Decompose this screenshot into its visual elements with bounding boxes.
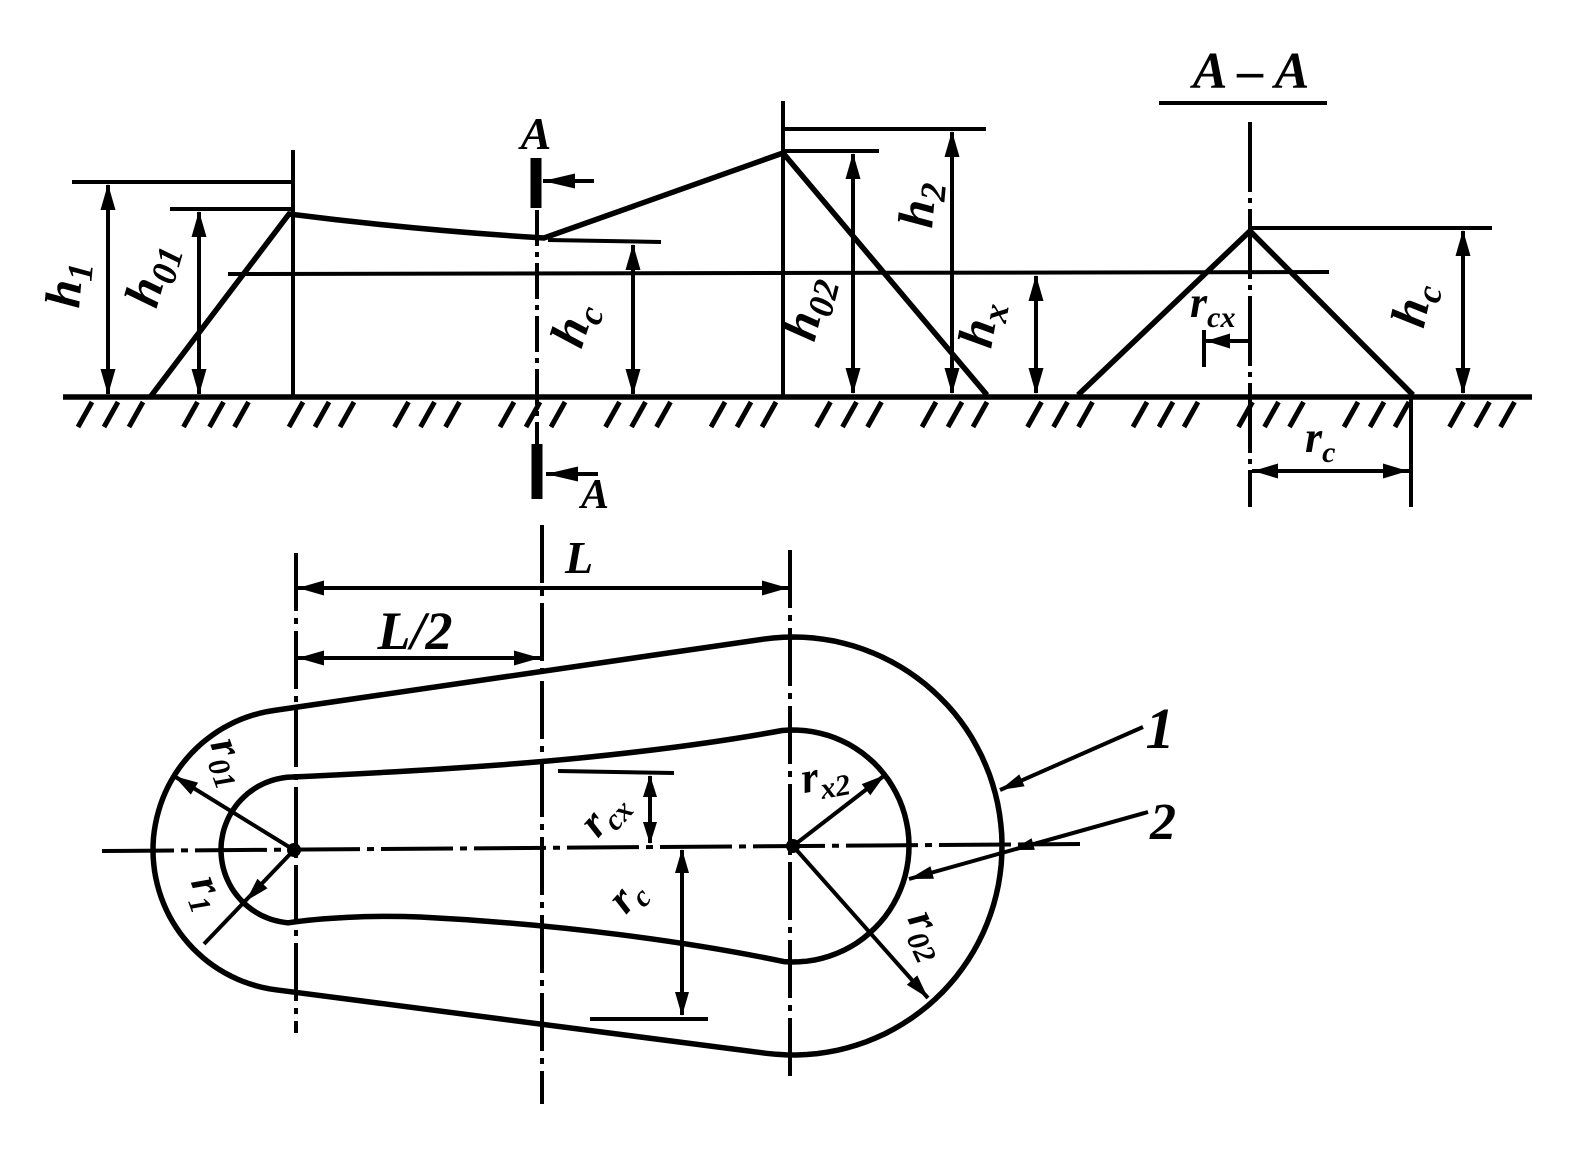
svg-text:rc: rc	[1305, 413, 1335, 469]
h02 top reference line	[783, 149, 879, 153]
label rc section	[1305, 413, 1335, 469]
plan horizontal centerline	[102, 844, 1080, 851]
label r1	[175, 869, 238, 918]
dimension hc arrow	[626, 244, 641, 395]
hc reference line	[548, 240, 661, 242]
right center point	[786, 839, 800, 853]
dimension h1 arrow	[101, 184, 116, 395]
label hc	[538, 294, 611, 355]
label rc plan	[597, 867, 658, 926]
left center point	[287, 843, 301, 857]
label hx	[947, 297, 1017, 353]
plan right axis line	[788, 550, 792, 1083]
label h1	[34, 259, 101, 310]
svg-text:hc: hc	[538, 294, 611, 355]
dimension rc section arrow	[1252, 464, 1409, 479]
section triangle profile	[1078, 231, 1413, 395]
label h01	[113, 236, 191, 315]
label L	[564, 532, 593, 583]
label hc section	[1379, 277, 1450, 333]
h2 top reference line	[784, 127, 986, 131]
label rx2	[797, 747, 853, 809]
dimension rcx arrow	[1206, 334, 1250, 349]
svg-text:A: A	[518, 108, 552, 159]
label h02	[771, 270, 848, 347]
svg-text:r1: r1	[175, 869, 238, 918]
plan middle axis line (section A-A)	[540, 525, 544, 1104]
dimension rc plan arrow	[675, 849, 689, 1016]
svg-text:rc: rc	[597, 867, 658, 926]
svg-text:r02: r02	[893, 902, 963, 968]
svg-text:A: A	[578, 472, 609, 518]
svg-text:2: 2	[1149, 794, 1176, 851]
svg-text:hc: hc	[1379, 277, 1450, 333]
callout 1	[1146, 696, 1175, 761]
label r02	[893, 902, 963, 968]
label r01	[195, 731, 263, 794]
section line A-A (dash-dot)	[535, 210, 539, 444]
dune profile line	[151, 153, 987, 396]
rc extension line right	[1409, 397, 1413, 507]
leader line 1	[1000, 727, 1143, 790]
rc plan reference line	[590, 1017, 708, 1021]
radius r02	[793, 846, 928, 998]
plan left axis line	[294, 553, 298, 1033]
dimension h2 arrow	[945, 131, 960, 394]
dimension hx arrow	[1029, 275, 1044, 394]
h01 top reference line	[170, 207, 292, 211]
dimension L/2 arrow	[298, 651, 540, 666]
svg-text:h2: h2	[887, 179, 954, 230]
section hc reference line	[1252, 226, 1492, 230]
svg-text:h01: h01	[113, 236, 191, 315]
h1 top reference line	[72, 180, 292, 184]
dimension hc section arrow	[1456, 230, 1471, 394]
leader line 2	[909, 812, 1148, 879]
rcx plan reference line	[558, 771, 674, 773]
svg-text:L/2: L/2	[377, 601, 453, 661]
svg-text:hx: hx	[947, 297, 1017, 353]
title A-A	[1190, 43, 1310, 100]
ground line	[63, 394, 1532, 400]
svg-text:rcx: rcx	[1190, 278, 1235, 334]
inner contour 2 (teardrop)	[221, 730, 909, 962]
svg-text:1: 1	[1146, 696, 1175, 761]
svg-text:rx2: rx2	[797, 747, 853, 809]
label A top	[518, 108, 552, 159]
label rcx plan	[569, 779, 640, 850]
label h2	[887, 179, 954, 230]
svg-text:h1: h1	[34, 259, 101, 310]
svg-text:rcx: rcx	[569, 779, 640, 850]
extension line through peak 1	[291, 150, 295, 396]
section axis line	[1248, 122, 1252, 507]
ground hatching	[78, 402, 1515, 427]
section cut mark A bottom	[537, 444, 598, 499]
label rcx	[1190, 278, 1235, 334]
callout 2	[1149, 794, 1176, 851]
dimension h02 arrow	[846, 153, 861, 394]
title underline	[1159, 101, 1327, 105]
extension line through peak 2	[781, 101, 785, 395]
mean level line	[228, 272, 1329, 274]
dimension h01 arrow	[192, 211, 207, 395]
dimension L arrow	[298, 581, 788, 596]
label A bottom	[578, 472, 609, 518]
label L/2	[377, 601, 453, 661]
radius r01	[174, 776, 294, 850]
rcx extension line	[1202, 330, 1206, 367]
radius rx2	[793, 775, 885, 846]
section cut mark A top	[536, 158, 594, 208]
outer contour 1 (teardrop)	[153, 637, 1002, 1055]
svg-text:A – A: A – A	[1190, 43, 1310, 100]
svg-text:L: L	[564, 532, 593, 583]
radius r1	[204, 850, 294, 944]
dimension rcx plan arrow	[643, 775, 657, 844]
